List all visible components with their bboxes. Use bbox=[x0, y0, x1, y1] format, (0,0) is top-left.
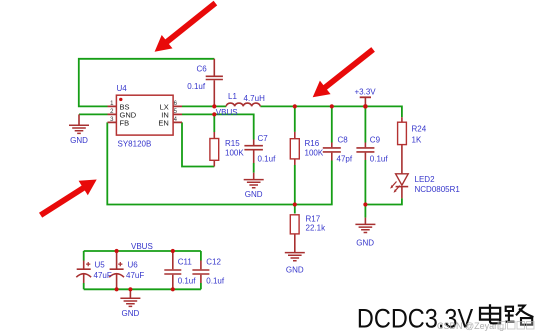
svg-text:R24: R24 bbox=[412, 124, 427, 133]
svg-text:C8: C8 bbox=[338, 136, 349, 145]
svg-text:R16: R16 bbox=[305, 139, 320, 148]
svg-text:0.1uf: 0.1uf bbox=[206, 277, 225, 286]
svg-text:VBUS: VBUS bbox=[131, 242, 153, 251]
svg-text:L1: L1 bbox=[228, 92, 237, 101]
svg-text:U6: U6 bbox=[128, 260, 139, 269]
svg-text:0.1uf: 0.1uf bbox=[178, 277, 197, 286]
svg-text:47uF: 47uF bbox=[94, 271, 112, 280]
svg-text:GND: GND bbox=[122, 309, 140, 318]
svg-text:100K: 100K bbox=[305, 149, 324, 158]
svg-text:U4: U4 bbox=[117, 84, 128, 93]
svg-text:4.7uH: 4.7uH bbox=[244, 94, 266, 103]
svg-text:GND: GND bbox=[356, 238, 374, 247]
svg-text:EN: EN bbox=[158, 119, 168, 128]
svg-text:+3.3V: +3.3V bbox=[355, 87, 377, 96]
svg-text:0.1uf: 0.1uf bbox=[370, 154, 389, 163]
svg-text:FB: FB bbox=[120, 119, 130, 128]
svg-text:R17: R17 bbox=[306, 215, 321, 224]
svg-text:NCD0805R1: NCD0805R1 bbox=[415, 185, 461, 194]
svg-text:0.1uf: 0.1uf bbox=[187, 82, 206, 91]
svg-text:SY8120B: SY8120B bbox=[118, 140, 152, 149]
svg-text:GND: GND bbox=[70, 136, 88, 145]
svg-text:22.1k: 22.1k bbox=[306, 223, 327, 232]
svg-text:LED2: LED2 bbox=[415, 175, 436, 184]
svg-text:47pf: 47pf bbox=[337, 154, 353, 163]
svg-text:U5: U5 bbox=[95, 260, 106, 269]
svg-text:C6: C6 bbox=[197, 65, 208, 74]
svg-text:GND: GND bbox=[245, 190, 263, 199]
svg-text:C11: C11 bbox=[178, 257, 193, 266]
svg-text:VBUS: VBUS bbox=[216, 108, 238, 117]
svg-text:0.1uf: 0.1uf bbox=[258, 154, 277, 163]
svg-text:R15: R15 bbox=[225, 139, 240, 148]
svg-text:C7: C7 bbox=[258, 134, 269, 143]
svg-text:CSDN @Zeyang: CSDN @Zeyang bbox=[437, 321, 504, 331]
svg-text:1K: 1K bbox=[412, 135, 422, 144]
svg-text:47uF: 47uF bbox=[126, 271, 144, 280]
svg-text:GND: GND bbox=[286, 266, 304, 275]
svg-text:100K: 100K bbox=[225, 148, 244, 157]
svg-text:C9: C9 bbox=[370, 136, 381, 145]
svg-text:C12: C12 bbox=[206, 257, 221, 266]
